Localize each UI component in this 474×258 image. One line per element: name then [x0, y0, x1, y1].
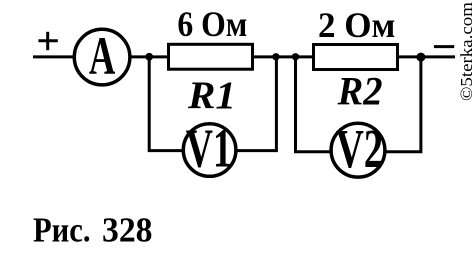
svg-text:Рис.: Рис.	[33, 211, 91, 250]
svg-text:328: 328	[102, 211, 153, 250]
svg-text:A: A	[89, 26, 115, 86]
svg-text:2 Ом: 2 Ом	[318, 5, 396, 45]
svg-text:6 Ом: 6 Ом	[177, 4, 247, 44]
svg-text:V1: V1	[186, 117, 232, 178]
svg-text:R1: R1	[187, 73, 236, 117]
svg-text:©5terka.com: ©5terka.com	[457, 2, 474, 101]
svg-text:V2: V2	[336, 118, 384, 179]
svg-text:R2: R2	[337, 69, 383, 114]
